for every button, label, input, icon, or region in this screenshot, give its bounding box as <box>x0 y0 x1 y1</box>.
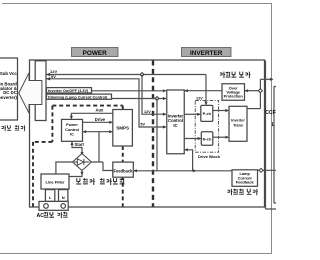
L terminal pin <box>45 190 54 202</box>
12V drop to P-ch <box>205 75 207 105</box>
svg-text:Start: Start <box>75 142 85 147</box>
inverter control IC <box>167 90 185 154</box>
inverter transformer <box>229 106 247 141</box>
main inverter board box <box>30 60 265 207</box>
outer frame top border <box>2 3 272 5</box>
hv bus vertical <box>259 79 261 108</box>
node on dimming wire <box>155 97 159 101</box>
N terminal pin <box>59 190 68 202</box>
korean label: over-voltage protection <box>220 72 250 78</box>
lamp return wire from CCFL <box>258 169 277 171</box>
svg-text:Aux: Aux <box>96 108 104 113</box>
svg-text:P-ch: P-ch <box>203 111 212 116</box>
svg-text:INVERTER: INVERTER <box>190 50 223 57</box>
svg-text:Feedback: Feedback <box>236 180 255 185</box>
svg-text:CCF: CCF <box>265 110 276 116</box>
dimming wire to IC <box>112 98 166 100</box>
5V line <box>46 79 166 127</box>
diode symbol inside bridge <box>74 159 90 166</box>
panel box <box>266 61 277 210</box>
transformer output wire <box>247 108 260 110</box>
gate wire IC to P-ch <box>184 113 200 115</box>
vcc wire between power IC and SMPS <box>83 131 112 133</box>
svg-text:IC: IC <box>173 123 177 128</box>
feedback box <box>113 162 134 177</box>
aux wire SMPS to power control IC <box>71 113 112 118</box>
svg-text:POWER: POWER <box>83 50 108 57</box>
svg-text:converter): converter) <box>0 95 17 100</box>
svg-text:IC: IC <box>70 132 74 137</box>
bridge rectifier diamond <box>73 154 92 171</box>
drive block dash-dot box <box>195 101 218 153</box>
N-ch out to transformer <box>213 136 228 138</box>
AC inlet connector <box>39 201 68 210</box>
line filter feed to bridge <box>56 162 73 174</box>
start wire <box>72 142 82 153</box>
gate wire IC to N-ch <box>184 138 200 140</box>
SMPS box <box>113 110 133 147</box>
bridge bottom return <box>69 171 82 177</box>
POWER section header <box>72 48 119 57</box>
branch up into IC <box>184 150 192 171</box>
svg-text:SMPS: SMPS <box>116 126 129 131</box>
on/off wire to IC <box>92 90 166 92</box>
N-ch FET <box>201 132 213 146</box>
connector bar <box>35 61 46 121</box>
over voltage protection box <box>222 84 245 101</box>
left block: main board <box>0 58 18 120</box>
12V branch to control IC <box>142 75 166 115</box>
svg-text:AC: AC <box>37 213 45 219</box>
svg-text:Feedback: Feedback <box>114 168 134 173</box>
svg-text:N-ch: N-ch <box>203 136 212 141</box>
node on hv bus <box>258 89 262 93</box>
wire OVP to IC <box>184 90 222 92</box>
lamp current feedback box <box>232 170 258 187</box>
hollow block arrow to main board <box>19 73 42 113</box>
dc bus bridge to SMPS <box>92 132 113 171</box>
P-ch out to transformer <box>213 110 228 112</box>
korean label: AC power input <box>37 212 68 219</box>
drive wire power control IC to SMPS <box>83 121 112 123</box>
korean label: bridge diode <box>76 178 124 185</box>
power-section dashed enclosure <box>33 106 123 207</box>
CCFL lamp box <box>274 87 276 204</box>
svg-text:Inverter: Inverter <box>231 119 245 123</box>
svg-text:Sub Vcc: Sub Vcc <box>0 71 17 76</box>
12V line <box>46 74 206 76</box>
svg-text:5V: 5V <box>140 123 145 127</box>
power control IC <box>62 119 83 141</box>
ovp sense wire <box>245 90 261 92</box>
outer frame right border <box>271 3 273 254</box>
svg-text:Trans: Trans <box>233 124 243 128</box>
dimming label box <box>47 94 112 99</box>
svg-text:Drive: Drive <box>95 117 106 122</box>
svg-text:L: L <box>272 122 275 128</box>
svg-text:N: N <box>62 195 65 200</box>
node on 12V line <box>140 73 144 77</box>
dimming branch down <box>156 99 158 171</box>
svg-text:Dimming (Lamp Current Control): Dimming (Lamp Current Control) <box>48 95 108 99</box>
svg-text:Line Filter: Line Filter <box>45 180 65 185</box>
power/inverter dashed divider <box>152 61 154 207</box>
outer frame bottom border <box>0 253 272 255</box>
svg-text:12V: 12V <box>144 110 151 114</box>
svg-text:12V: 12V <box>196 97 203 101</box>
korean label: over-current protection <box>227 189 257 195</box>
korean label: board connect (드로 연결) <box>0 125 25 131</box>
svg-text:Protection: Protection <box>224 94 244 99</box>
svg-text:Drive Block: Drive Block <box>198 154 221 159</box>
svg-text:Inverter On/OFF (3.3V): Inverter On/OFF (3.3V) <box>48 89 89 93</box>
line filter box <box>41 174 69 189</box>
node at feedback tap <box>259 168 263 172</box>
inverter on/off label box <box>47 88 92 93</box>
sense wire feedback row <box>133 170 232 172</box>
INVERTER section header <box>182 48 232 57</box>
wire to CCFL <box>260 78 272 80</box>
P-ch FET <box>201 105 213 121</box>
